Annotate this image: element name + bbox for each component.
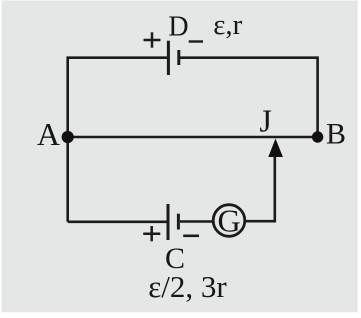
wire bottom-left to battery C bbox=[68, 221, 167, 224]
label minus of battery C bbox=[183, 235, 199, 238]
label minus of battery D bbox=[189, 40, 203, 42]
wire left vertical + top-left segment bbox=[68, 58, 167, 222]
label + of battery C bbox=[143, 226, 160, 241]
svg-text:D: D bbox=[168, 11, 188, 42]
svg-text:ε/2, 3r: ε/2, 3r bbox=[148, 269, 227, 304]
galvanometer G circle bbox=[213, 205, 245, 237]
battery D plates bbox=[168, 41, 178, 75]
svg-text:J: J bbox=[259, 103, 271, 139]
wire top-right segment + right vertical bbox=[180, 58, 318, 137]
node A dot bbox=[62, 131, 74, 143]
svg-text:A: A bbox=[37, 116, 60, 152]
arrow head at J bbox=[268, 139, 283, 158]
battery C plates bbox=[168, 204, 178, 240]
wire middle A to B bbox=[68, 136, 318, 139]
svg-text:B: B bbox=[326, 118, 346, 151]
wire battery C to galvanometer bbox=[180, 220, 213, 223]
label + of battery D bbox=[144, 32, 161, 47]
svg-text:ε,r: ε,r bbox=[213, 9, 242, 41]
wire galvanometer to elbow and up to arrow bbox=[245, 152, 275, 221]
svg-text:G: G bbox=[217, 203, 240, 239]
node B dot bbox=[312, 131, 323, 142]
